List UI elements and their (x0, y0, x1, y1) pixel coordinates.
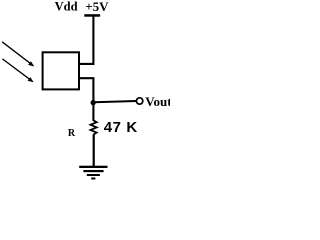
svg-text:Vout: Vout (145, 94, 170, 109)
photosensor U1 (box) (43, 52, 79, 89)
ground symbol bar 4 (91, 178, 95, 180)
svg-text:+5V: +5V (85, 0, 109, 14)
light arrow 1 (2, 42, 34, 67)
wire from node to output terminal (93, 101, 136, 102)
ground symbol bar 2 (83, 170, 103, 172)
light arrow 2 (2, 59, 33, 82)
svg-text:R: R (68, 128, 76, 139)
wire from +5V rail down to sensor upper pin (79, 16, 93, 64)
svg-text:47 K: 47 K (104, 119, 138, 136)
wire from resistor down to ground (93, 134, 95, 166)
junction dot (node Vout) (91, 100, 96, 105)
power rail bar (+5V terminal) (84, 14, 100, 17)
ground symbol bar 3 (87, 174, 100, 176)
wire from sensor lower pin down to node (79, 78, 93, 102)
output terminal circle (136, 98, 142, 104)
resistor R (zigzag) (91, 120, 97, 134)
svg-text:Vdd: Vdd (55, 0, 78, 14)
ground symbol bar 1 (79, 166, 107, 168)
wire from node down to resistor (92, 103, 94, 121)
